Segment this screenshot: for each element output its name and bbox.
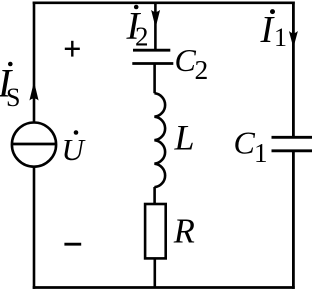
- capacitor C2 bottom plate: [132, 62, 173, 65]
- label I1 dot: [270, 9, 275, 14]
- svg-text:S: S: [6, 83, 20, 112]
- current source IS circle: [12, 123, 56, 167]
- label I2 dot: [134, 5, 139, 10]
- capacitor C1 top plate: [272, 136, 313, 139]
- wire right upper: [292, 2, 295, 138]
- label IS dot: [8, 62, 13, 67]
- svg-text:1: 1: [254, 138, 268, 168]
- label + (polarity plus): [65, 41, 80, 57]
- svg-text:U: U: [62, 132, 87, 167]
- arrow I1 (down, on right wire): [289, 31, 298, 48]
- svg-text:L: L: [174, 118, 195, 158]
- svg-text:2: 2: [135, 21, 149, 51]
- wire middle upper: [154, 3, 157, 50]
- wire left lower: [33, 167, 36, 289]
- label minus (polarity): [64, 243, 81, 246]
- svg-text:R: R: [173, 213, 195, 251]
- wire middle between C2 and L: [153, 64, 156, 94]
- capacitor C2 top plate: [133, 49, 170, 52]
- label U dot: [74, 130, 79, 135]
- resistor R body: [145, 204, 166, 258]
- wire left upper: [33, 2, 36, 123]
- inductor L coil: [154, 93, 165, 187]
- svg-text:2: 2: [195, 54, 209, 85]
- arrow I2 (down, on middle wire): [151, 10, 160, 28]
- capacitor C1 bottom plate: [272, 149, 313, 152]
- svg-text:C: C: [234, 125, 256, 161]
- svg-text:C: C: [175, 42, 197, 78]
- wire top: [33, 1, 295, 4]
- arrow IS (up, on left wire): [29, 82, 38, 101]
- wire right lower: [292, 151, 295, 289]
- current source bar: [11, 143, 56, 146]
- wire middle between L and R: [153, 187, 156, 203]
- wire bottom: [33, 286, 295, 289]
- wire middle below R: [154, 259, 157, 289]
- svg-text:1: 1: [274, 23, 287, 52]
